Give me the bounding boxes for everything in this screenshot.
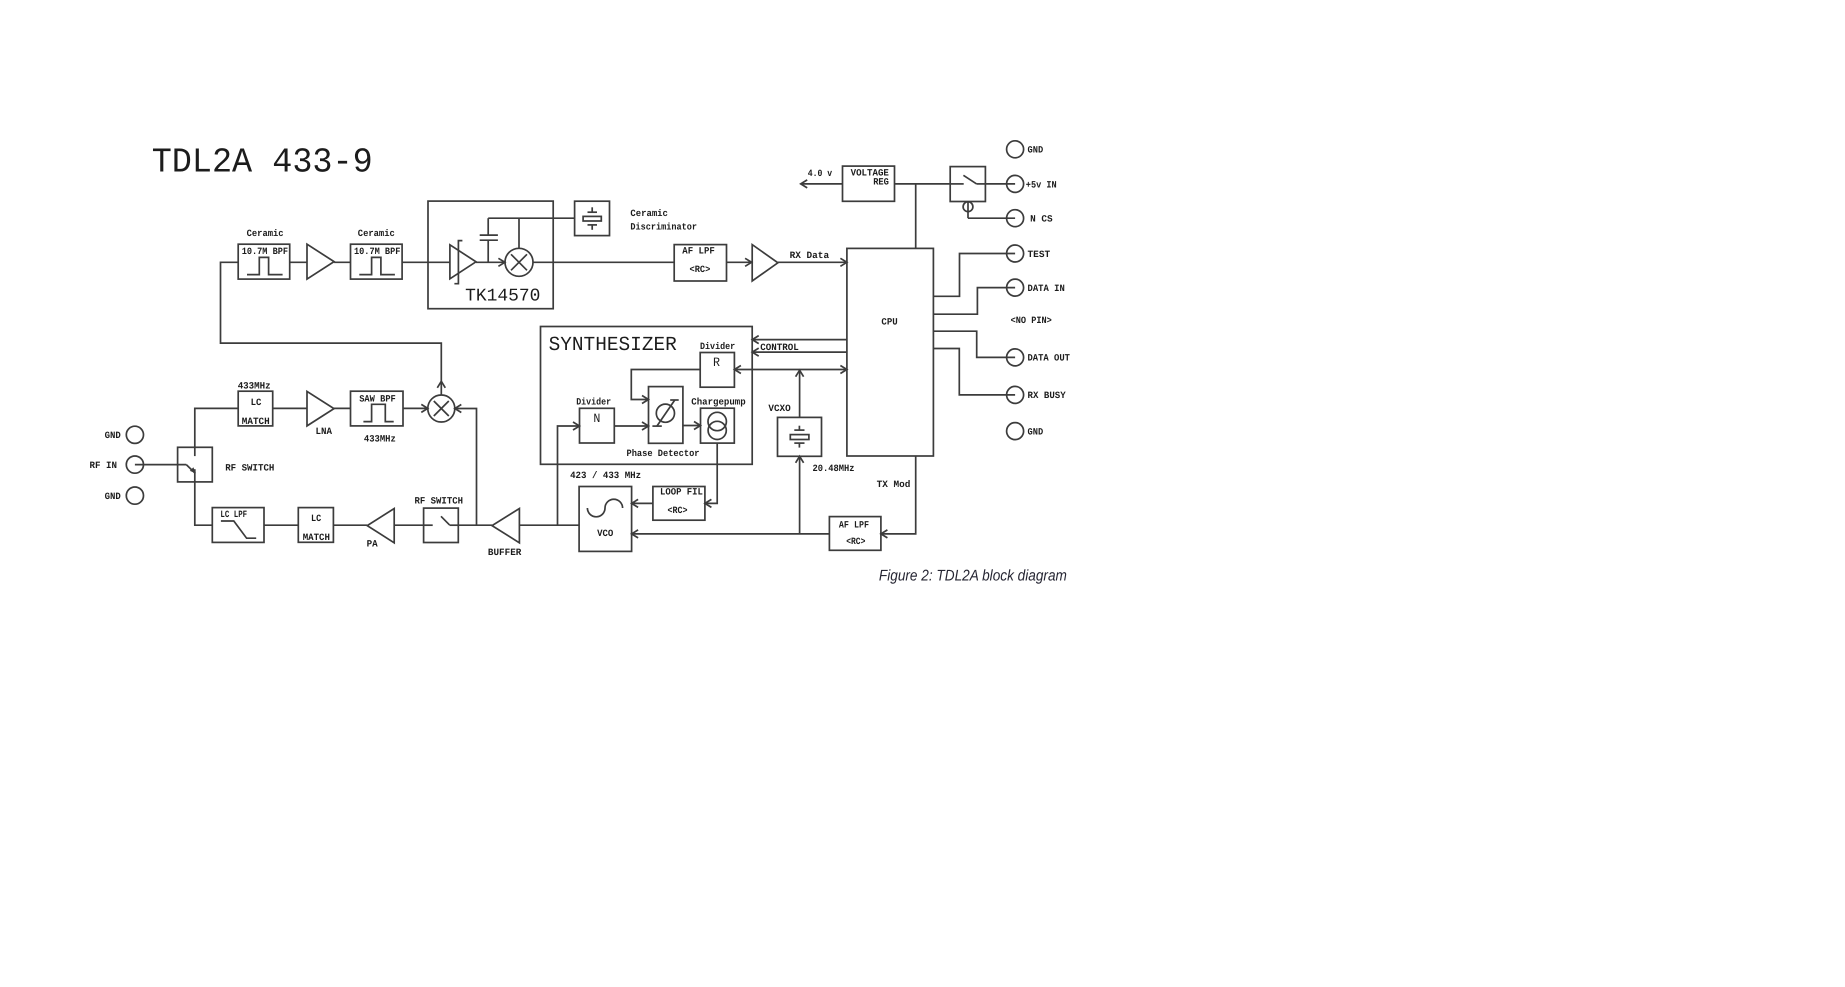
svg-text:20.48MHz: 20.48MHz: [813, 463, 855, 474]
sine glyph in VCO: [587, 499, 622, 517]
svg-text:VCXO: VCXO: [768, 403, 791, 414]
wire 4.0v output arrow: [801, 180, 843, 188]
svg-text:RX Data: RX Data: [790, 250, 830, 261]
svg-text:Ceramic: Ceramic: [247, 228, 284, 239]
oscillator VCO box: [579, 487, 632, 552]
amplifier buffer: [488, 509, 522, 559]
wire LO tap to mixer2: [455, 405, 477, 526]
wire limiter to mixer1: [476, 258, 505, 266]
svg-text:LNA: LNA: [316, 426, 333, 437]
IC U3 CPU box: [847, 248, 934, 456]
label Phase Detector: [627, 448, 700, 459]
svg-text:AF LPF: AF LPF: [839, 520, 869, 531]
oscillator VCXO box: [778, 417, 822, 456]
pad TEST: [1007, 245, 1051, 262]
svg-text:<RC>: <RC>: [846, 536, 865, 547]
switch SW2 contacts: [186, 447, 196, 482]
wire REG to switch SW1: [895, 183, 951, 185]
svg-text:TK14570: TK14570: [465, 286, 540, 306]
wire control pin to N CS: [968, 217, 1015, 219]
svg-text:RX BUSY: RX BUSY: [1028, 390, 1066, 401]
svg-text:RF SWITCH: RF SWITCH: [225, 463, 274, 474]
wire CPU TX Mod to AF LPF: [881, 456, 916, 538]
discriminator X1 box: [575, 201, 610, 235]
phase symbol: [652, 400, 678, 426]
label (NO PIN): [1011, 315, 1052, 326]
label Ceramic (BPF2): [358, 228, 395, 239]
svg-text:Discriminator: Discriminator: [630, 221, 697, 232]
label Divider (R): [700, 341, 735, 352]
wire SW1 to +5v IN pin: [985, 183, 1015, 185]
label RX Data: [790, 250, 830, 261]
label 433MHz (LC match): [238, 380, 271, 391]
filter FL2 10.7M BPF box: [351, 244, 403, 279]
wire 20.48MHz ref line: [734, 366, 847, 374]
wire PA to RF switch TX: [394, 524, 423, 526]
wire loop filter to VCO: [632, 499, 653, 507]
label RF SWITCH (TX): [415, 495, 464, 506]
svg-text:N CS: N CS: [1030, 213, 1053, 224]
divider R box: [700, 353, 734, 388]
wire BPF1 to A1: [290, 261, 307, 263]
switch SW1 power switch box: [950, 167, 985, 202]
filter AF LPF (RC) TX box: [829, 517, 881, 551]
label VCXO: [768, 403, 791, 414]
crystal glyph in VCXO: [790, 426, 809, 448]
wire VCO out to buffer: [519, 524, 579, 526]
svg-text:PA: PA: [367, 538, 378, 549]
divider N box: [580, 408, 615, 443]
wire quad tank to discriminator: [488, 218, 574, 248]
pad GND antenna upper: [105, 426, 144, 443]
wire R out to phase det: [631, 370, 700, 404]
pad DATA OUT: [1007, 349, 1071, 366]
phase detector box: [649, 387, 683, 444]
regulator U2 VOLTAGE REG box: [843, 166, 895, 201]
svg-text:AF LPF: AF LPF: [682, 246, 715, 257]
wire CPU to DATA IN: [933, 288, 1015, 315]
pad DATA IN: [1007, 279, 1065, 296]
svg-text:REG: REG: [873, 176, 889, 187]
label RF SWITCH (antenna): [225, 463, 274, 474]
wire BPF1 input from mixer2: [221, 262, 446, 395]
wire switch to LC LPF: [195, 482, 213, 525]
filter AF LPF (RC) RX box: [674, 245, 726, 281]
svg-text:GND: GND: [1028, 426, 1044, 437]
svg-text:LC: LC: [251, 397, 262, 408]
svg-text:TX Mod: TX Mod: [877, 479, 911, 490]
svg-text:DATA IN: DATA IN: [1028, 283, 1066, 294]
mixer M2 433MHz: [428, 395, 455, 422]
chargepump current-source symbol: [708, 412, 726, 439]
wire CONTROL lower: [752, 348, 847, 356]
svg-text:Phase Detector: Phase Detector: [627, 448, 700, 459]
wire mixer1 out to AF LPF: [533, 261, 674, 263]
label 20.48MHz: [813, 463, 855, 474]
label 423 / 433 MHz: [570, 470, 641, 481]
wire BPF2 to limiter: [402, 261, 450, 263]
IC U1 TK14570 box: [428, 201, 553, 309]
wire LC LPF to LC MATCH TX: [264, 524, 298, 526]
caption Figure 2: [879, 568, 1067, 585]
svg-text:R: R: [713, 355, 720, 370]
wire RX Data to CPU: [778, 258, 847, 266]
svg-text:Chargepump: Chargepump: [691, 396, 746, 407]
amplifier limiter: [450, 241, 476, 284]
wire VCXO to ref line: [796, 370, 804, 418]
wire switch to LC MATCH RX: [195, 408, 238, 447]
svg-text:LC: LC: [311, 513, 321, 524]
wire chargepump to loop filter: [705, 443, 717, 507]
pad GND bottom: [1007, 423, 1044, 440]
amplifier PA: [367, 509, 395, 550]
label Ceramic (BPF1): [247, 228, 284, 239]
pad GND top: [1007, 141, 1044, 158]
pad RF IN: [90, 456, 144, 473]
svg-text:GND: GND: [1028, 145, 1044, 156]
svg-text:DATA OUT: DATA OUT: [1028, 353, 1071, 364]
filter LOOP FIL (RC) box: [653, 487, 705, 521]
module SYNTHESIZER box: [541, 327, 753, 465]
filter FL1 10.7M BPF box: [238, 244, 290, 279]
svg-text:10.7M BPF: 10.7M BPF: [242, 246, 289, 257]
pad GND antenna lower: [105, 487, 144, 504]
svg-text:LC LPF: LC LPF: [220, 509, 247, 520]
switch SW2 RF SWITCH box: [178, 447, 213, 482]
amplifier LNA: [307, 391, 334, 437]
wire VCO tap to divider N: [558, 422, 580, 525]
pad RX BUSY: [1007, 386, 1066, 403]
wire phase det to chargepump: [683, 422, 701, 430]
wire A1 to BPF2: [334, 261, 350, 263]
wire N out to phase det: [614, 422, 648, 430]
wire LC MATCH to PA: [333, 524, 367, 526]
svg-text:Figure 2: TDL2A block diagram: Figure 2: TDL2A block diagram: [879, 568, 1067, 585]
svg-text:SYNTHESIZER: SYNTHESIZER: [549, 334, 677, 357]
title TDL2A 433-9: [152, 143, 373, 183]
svg-text:SAW BPF: SAW BPF: [359, 394, 396, 405]
amplifier A2 data slicer: [752, 245, 778, 281]
wire CPU to DATA OUT: [933, 331, 1015, 357]
svg-text:<NO PIN>: <NO PIN>: [1011, 315, 1052, 326]
svg-text:<RC>: <RC>: [668, 505, 688, 516]
wire LC MATCH to LNA: [273, 407, 307, 409]
svg-text:N: N: [593, 411, 600, 426]
svg-text:LOOP FIL: LOOP FIL: [660, 487, 703, 498]
svg-text:BUFFER: BUFFER: [488, 547, 522, 558]
svg-text:VCO: VCO: [597, 528, 613, 539]
wire AF LPF to A2: [727, 258, 753, 266]
label TX Mod: [877, 479, 911, 490]
wire AF LPF to VCO mod input: [632, 530, 830, 538]
matching network LC MATCH TX box: [298, 508, 333, 544]
wire LNA to SAW BPF: [334, 407, 351, 409]
svg-text:Ceramic: Ceramic: [630, 208, 668, 219]
svg-text:10.7M BPF: 10.7M BPF: [354, 246, 401, 257]
svg-text:423 / 433 MHz: 423 / 433 MHz: [570, 470, 641, 481]
svg-text:MATCH: MATCH: [303, 532, 331, 543]
svg-text:Ceramic: Ceramic: [358, 228, 395, 239]
filter SAW BPF box: [351, 391, 404, 426]
wire supply branch to CPU: [915, 184, 917, 249]
capacitor C1 quad cap: [480, 218, 498, 262]
wire mod line to VCXO: [796, 456, 804, 534]
label CONTROL: [760, 342, 799, 353]
amplifier A1 IF amp: [307, 244, 334, 279]
wire CPU to TEST: [933, 254, 1015, 297]
switch SW3 RF SWITCH TX box: [424, 508, 459, 542]
pad N CS: [1007, 210, 1053, 227]
wire RF IN to antenna switch: [135, 464, 186, 466]
label 4.0 v: [808, 168, 833, 179]
mixer M1 10.7MHz quadrature: [505, 248, 533, 276]
svg-text:+5v IN: +5v IN: [1026, 180, 1057, 191]
svg-text:CONTROL: CONTROL: [760, 342, 799, 353]
svg-text:433MHz: 433MHz: [364, 433, 396, 444]
crystal resonator glyph: [583, 207, 601, 230]
wire buffer to RF switch TX: [458, 524, 492, 526]
svg-text:TDL2A 433-9: TDL2A 433-9: [152, 143, 373, 183]
label Chargepump: [691, 396, 746, 407]
wire CONTROL upper: [752, 336, 847, 344]
svg-text:CPU: CPU: [881, 317, 898, 328]
svg-text:GND: GND: [105, 430, 121, 441]
svg-text:<RC>: <RC>: [690, 264, 711, 275]
svg-text:Divider: Divider: [576, 396, 611, 407]
label Divider (N): [576, 396, 611, 407]
svg-text:GND: GND: [105, 491, 121, 502]
filter LC LPF box: [212, 508, 264, 543]
pad +5v IN: [1007, 175, 1057, 192]
svg-text:4.0 v: 4.0 v: [808, 168, 833, 179]
svg-text:433MHz: 433MHz: [238, 380, 271, 391]
svg-text:RF SWITCH: RF SWITCH: [415, 495, 464, 506]
chargepump box: [701, 408, 735, 443]
matching network LC MATCH RX box: [238, 391, 273, 427]
label 433MHz (SAW): [364, 433, 396, 444]
label Ceramic Discriminator: [630, 208, 697, 232]
wire SAW BPF to mixer2: [403, 404, 428, 412]
svg-text:TEST: TEST: [1028, 249, 1051, 260]
wire CPU to RX BUSY: [933, 349, 1015, 395]
switch SW1 control pin: [963, 202, 973, 219]
svg-text:MATCH: MATCH: [242, 416, 270, 427]
svg-text:RF IN: RF IN: [90, 460, 118, 471]
svg-text:Divider: Divider: [700, 341, 735, 352]
